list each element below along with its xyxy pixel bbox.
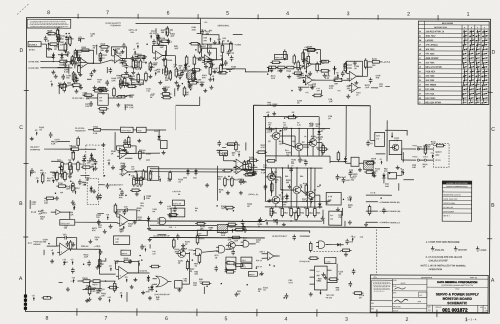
wire — [88, 287, 98, 289]
ground — [267, 199, 271, 203]
wire — [126, 292, 128, 302]
capacitor — [122, 43, 126, 49]
wire — [322, 210, 324, 218]
ground — [121, 50, 125, 54]
ground — [133, 220, 137, 224]
resistor — [190, 69, 201, 72]
svg-text:47K: 47K — [66, 188, 70, 191]
resistor — [217, 71, 228, 74]
junction — [306, 71, 308, 73]
resistor — [150, 265, 161, 268]
svg-text:(D-4B) A(B): (D-4B) A(B) — [29, 67, 39, 70]
svg-text:—C8(7): —C8(7) — [94, 246, 101, 248]
svg-text:REV: REV — [371, 303, 374, 305]
svg-text:R54: R54 — [300, 175, 303, 178]
connector J10-2 — [423, 156, 428, 161]
diode CR27 — [382, 173, 385, 180]
ground — [74, 61, 78, 65]
power arrow — [230, 227, 233, 232]
wire — [106, 67, 108, 73]
junction — [300, 74, 302, 76]
svg-text:3-01: 3-01 — [376, 138, 379, 140]
resistor — [63, 81, 66, 92]
diode CR5 — [184, 63, 191, 70]
wire rail — [265, 200, 330, 202]
wire — [327, 244, 334, 246]
junction — [228, 176, 230, 178]
resistor — [183, 86, 186, 97]
op-amp U20 — [57, 243, 71, 255]
junction — [61, 88, 63, 90]
junction — [343, 199, 345, 201]
resistor R16 — [322, 144, 325, 155]
hatched network Z3 — [217, 225, 227, 233]
capacitor — [224, 60, 228, 66]
wire — [98, 213, 104, 215]
capacitor — [271, 171, 275, 177]
ground — [101, 143, 105, 147]
wire — [203, 251, 217, 253]
resistor — [160, 93, 171, 96]
wire dashed — [313, 251, 347, 253]
ground — [354, 81, 358, 85]
transistor Q4 — [390, 144, 399, 151]
wire — [40, 60, 58, 62]
wire — [419, 159, 424, 161]
junction — [380, 197, 382, 199]
wire — [96, 45, 98, 55]
resistor — [186, 260, 189, 271]
capacitor — [173, 206, 177, 212]
capacitor — [382, 208, 386, 214]
module driver — [389, 141, 402, 155]
ground — [181, 247, 185, 251]
resistor R61 — [281, 206, 289, 217]
resistor — [243, 160, 246, 171]
capacitor — [178, 73, 182, 79]
svg-text:SERVO: SERVO — [249, 274, 255, 276]
resistor R266 feedback — [122, 258, 133, 263]
wire long rail B — [150, 230, 310, 233]
junction — [275, 128, 277, 130]
wire — [380, 61, 383, 63]
svg-text:19: 19 — [419, 67, 421, 69]
capacitor C41 — [342, 177, 351, 183]
capacitor C104 — [125, 63, 134, 69]
junction — [78, 39, 80, 41]
ground — [333, 67, 337, 71]
svg-text:DWG NO: DWG NO — [435, 307, 442, 309]
svg-text:47K: 47K — [47, 179, 51, 182]
junction — [98, 265, 100, 267]
ground — [123, 147, 127, 151]
resistor R264 — [121, 250, 131, 255]
resistor R122 — [139, 59, 148, 70]
power arrow — [107, 297, 111, 302]
diode CR18 — [285, 193, 288, 200]
ground — [192, 71, 196, 75]
wire trunk dark — [254, 104, 371, 106]
power +5 — [351, 236, 354, 241]
resistor — [203, 59, 214, 62]
svg-text:.1UF: .1UF — [38, 213, 43, 215]
wire — [83, 289, 96, 291]
junction — [221, 283, 223, 285]
wire — [58, 54, 67, 56]
resistor — [185, 55, 188, 66]
svg-text:TITLE: TITLE — [455, 288, 459, 290]
capacitor — [90, 71, 94, 77]
wire — [419, 148, 424, 150]
op-amp U15 — [233, 166, 244, 174]
gate U24 — [193, 249, 204, 256]
power arrow — [210, 62, 214, 67]
svg-text:21: 21 — [419, 36, 421, 38]
op-amp U1 — [78, 58, 91, 68]
wire — [402, 152, 404, 162]
junction — [301, 186, 303, 188]
svg-text:(D-13): (D-13) — [31, 212, 37, 214]
capacitor C30 — [123, 139, 131, 145]
wire — [164, 51, 166, 57]
ground — [234, 292, 238, 296]
junction — [113, 49, 115, 51]
resistor R101 — [57, 33, 66, 44]
svg-text:3: 3 — [345, 317, 348, 323]
wire — [136, 174, 138, 183]
capacitor — [30, 168, 34, 174]
svg-text:(D6A) L CL: (D6A) L CL — [249, 193, 260, 196]
svg-text:47K: 47K — [208, 229, 212, 232]
svg-text:.1UF: .1UF — [283, 129, 288, 131]
wire — [193, 54, 195, 56]
junction — [341, 78, 343, 80]
junction — [182, 83, 184, 85]
capacitor — [96, 194, 100, 200]
resistor — [222, 169, 233, 172]
svg-text:470 7400: 470 7400 — [425, 52, 435, 55]
capacitor C28b — [97, 219, 101, 225]
resistor — [266, 160, 277, 163]
resistor — [120, 75, 131, 78]
wire — [51, 160, 61, 162]
resistor — [41, 173, 44, 184]
svg-text:17: 17 — [419, 102, 421, 104]
power arrow — [36, 178, 40, 183]
transistor Q2 — [293, 142, 305, 151]
resistor R210 — [285, 66, 296, 73]
ground — [200, 83, 204, 87]
op-amp U4 — [202, 55, 214, 65]
wire — [89, 281, 91, 285]
module U26 — [226, 257, 236, 270]
wire U20 out — [69, 249, 116, 274]
gate U27 or — [153, 276, 172, 287]
svg-text:10K: 10K — [185, 94, 189, 96]
wire — [221, 41, 223, 43]
wire — [287, 165, 289, 169]
power arrow — [78, 37, 82, 42]
resistor — [192, 71, 195, 82]
capacitor C47 — [94, 159, 98, 165]
svg-text:1W: 1W — [330, 219, 333, 221]
resistor — [225, 262, 236, 265]
resistor — [368, 205, 371, 216]
resistor R190 — [149, 170, 152, 181]
svg-text:.1UF: .1UF — [114, 263, 119, 265]
junction — [310, 141, 312, 143]
wire — [280, 135, 295, 137]
module K1 — [161, 141, 168, 149]
junction — [73, 86, 75, 88]
wire — [385, 130, 407, 135]
capacitor — [348, 171, 352, 177]
resistor — [317, 148, 328, 151]
power arrow — [370, 170, 374, 175]
wire — [197, 32, 201, 34]
resistor — [69, 240, 72, 251]
svg-text:100K: 100K — [192, 29, 197, 31]
resistor — [220, 63, 223, 74]
svg-text:750: 750 — [153, 65, 156, 67]
svg-text:1: 1 — [467, 12, 470, 18]
svg-text:10K: 10K — [218, 179, 222, 181]
resistor R322 — [140, 176, 149, 187]
resistor — [319, 70, 330, 73]
wire — [43, 250, 45, 255]
svg-text:D: D — [20, 48, 24, 54]
svg-text:R30 1.5: R30 1.5 — [122, 253, 128, 255]
wire — [270, 206, 272, 209]
wire — [155, 28, 157, 34]
svg-text:4.7K: 4.7K — [151, 32, 156, 35]
svg-text:NOTE 1. W1 IS INSTALLED FOR NO: NOTE 1. W1 IS INSTALLED FOR NORMAL — [421, 264, 467, 267]
junction — [83, 263, 85, 265]
svg-text:10K: 10K — [146, 198, 150, 200]
resistor — [119, 83, 130, 86]
svg-text:47K: 47K — [231, 68, 235, 71]
resistor R300 — [69, 161, 78, 172]
wire — [158, 130, 160, 134]
junction — [150, 67, 152, 69]
wire — [327, 69, 329, 75]
svg-text:C48: C48 — [360, 236, 363, 239]
junction — [267, 73, 269, 75]
svg-text:R67: R67 — [317, 186, 320, 188]
power arrow — [211, 76, 215, 81]
ground — [71, 242, 75, 246]
power arrow — [220, 56, 223, 61]
ground — [148, 296, 152, 300]
wire — [364, 66, 372, 68]
wire trunk dark — [150, 229, 310, 232]
resistor — [235, 141, 238, 152]
wire — [282, 128, 284, 142]
resistor — [286, 116, 297, 119]
junction — [373, 173, 375, 175]
module R power — [329, 211, 342, 225]
wire — [78, 280, 82, 282]
svg-text:COMMAND: COMMAND — [30, 148, 41, 151]
transistor Q8 — [270, 195, 282, 204]
wire — [267, 67, 269, 71]
gate U33 — [241, 241, 252, 247]
svg-text:C-10B: C-10B — [325, 261, 331, 263]
ground — [101, 110, 105, 114]
resistor R105 — [46, 30, 57, 35]
resistor — [353, 292, 364, 295]
wire — [402, 148, 416, 150]
svg-text:5: 5 — [226, 11, 229, 17]
wire — [78, 38, 85, 40]
wire — [302, 144, 310, 146]
wire right trunk — [386, 120, 388, 161]
resistor R188 feedback — [306, 46, 317, 54]
junction — [389, 172, 391, 174]
power arrow — [154, 70, 158, 75]
module GAIN — [137, 127, 147, 132]
module SERVO tag — [248, 272, 257, 277]
capacitor — [270, 66, 274, 72]
junction — [156, 290, 158, 292]
junction — [190, 89, 192, 91]
svg-text:P4-100: P4-100 — [326, 296, 332, 299]
ground — [130, 285, 134, 289]
ground — [288, 184, 292, 188]
wire — [306, 63, 308, 73]
svg-text:100 7410: 100 7410 — [425, 92, 435, 95]
svg-text:R52: R52 — [285, 176, 288, 178]
svg-text:C: C — [491, 127, 495, 133]
junction — [59, 166, 61, 168]
ground — [122, 164, 126, 168]
wire — [216, 149, 222, 151]
svg-text:11: 11 — [419, 76, 421, 78]
resistor — [136, 56, 147, 59]
capacitor C100 — [65, 36, 74, 42]
wire feedback U14 — [117, 210, 124, 217]
wire — [58, 87, 60, 94]
wire feedback U2 — [111, 47, 126, 59]
resistor — [165, 66, 168, 77]
resistor — [328, 278, 339, 281]
connector P4 minus — [241, 263, 252, 268]
resistor — [341, 249, 352, 252]
junction — [85, 288, 87, 290]
svg-text:SUB A SH: SUB A SH — [173, 202, 182, 205]
module U12 — [351, 157, 359, 166]
wire — [254, 104, 266, 106]
junction — [269, 264, 271, 266]
power arrow — [280, 189, 284, 194]
ground — [272, 112, 276, 116]
resistor — [81, 166, 92, 169]
ground — [163, 89, 167, 93]
capacitor — [75, 50, 79, 56]
power arrow — [176, 85, 180, 90]
ground — [77, 56, 81, 60]
capacitor — [310, 197, 314, 203]
svg-text:R30: R30 — [203, 37, 206, 39]
transistor Q3 — [307, 137, 319, 146]
power arrow — [136, 43, 140, 48]
wire — [57, 141, 70, 143]
wire trunk dark — [150, 220, 265, 222]
wire — [366, 201, 378, 203]
capacitor — [120, 190, 124, 196]
power +15 P1 — [56, 27, 60, 32]
ground — [71, 200, 75, 204]
resistor R156 — [193, 55, 202, 66]
resistor R206 — [267, 66, 278, 73]
diode CR2 — [60, 53, 63, 60]
svg-text:LM: LM — [99, 97, 102, 99]
wire — [290, 129, 292, 156]
svg-text:4.7K: 4.7K — [31, 203, 36, 206]
wire — [303, 146, 309, 148]
resistor R272 — [88, 285, 97, 296]
wire — [262, 253, 265, 255]
resistor R204 — [274, 54, 287, 59]
wire — [51, 211, 56, 213]
power arrow — [379, 159, 382, 164]
wire feedback U4 — [201, 48, 216, 60]
junction — [47, 296, 49, 298]
svg-text:RES 4.7K NTWK: RES 4.7K NTWK — [425, 66, 442, 69]
op-amp U14 — [117, 214, 131, 226]
resistor — [70, 164, 73, 175]
resistor — [167, 213, 178, 216]
wire — [74, 60, 76, 69]
capacitor — [77, 57, 81, 63]
svg-text:5.1K: 5.1K — [289, 282, 294, 284]
power arrow — [430, 153, 433, 158]
svg-text:47K: 47K — [256, 241, 260, 244]
resistor — [57, 85, 68, 88]
wire — [41, 43, 46, 45]
resistor — [169, 171, 172, 182]
wire — [59, 282, 63, 284]
diode CR25 — [318, 202, 321, 209]
module U30 timer — [315, 266, 328, 290]
svg-text:13: 13 — [419, 84, 421, 86]
resistor — [224, 206, 235, 209]
capacitor C12 — [227, 50, 235, 56]
resistor — [198, 253, 201, 264]
resistor — [305, 183, 308, 194]
resistor — [77, 136, 80, 147]
power arrow — [301, 77, 304, 82]
ground — [168, 214, 172, 218]
wire cluster2 verticals — [281, 168, 283, 207]
power arrow — [271, 208, 275, 213]
svg-text:3A00: 3A00 — [154, 130, 158, 133]
wire — [148, 223, 150, 226]
resistor — [312, 94, 323, 97]
resistor R60 — [270, 206, 278, 217]
resistor — [295, 210, 298, 221]
svg-text:3.2K: 3.2K — [345, 180, 350, 182]
capacitor — [289, 167, 293, 173]
general notes box — [27, 19, 71, 28]
svg-text:100 RES NTWK 10: 100 RES NTWK 10 — [426, 31, 445, 33]
ground — [141, 291, 145, 295]
wire — [275, 168, 277, 196]
svg-text:REV: REV — [371, 308, 374, 310]
ground — [364, 222, 368, 226]
junction — [179, 78, 181, 80]
capacitor C61 — [345, 239, 353, 245]
